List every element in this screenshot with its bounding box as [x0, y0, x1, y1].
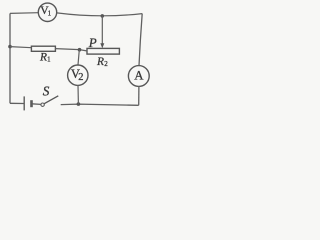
label R1	[39, 51, 51, 63]
svg-text:2: 2	[78, 72, 83, 83]
potentiometer slider arrow P	[100, 43, 104, 48]
wire bottom-right segment	[61, 104, 139, 105]
switch S	[41, 96, 58, 107]
wire battery to switch	[32, 103, 41, 106]
ammeter A	[128, 66, 149, 87]
rheostat R2	[87, 48, 119, 54]
wire middle-left segment	[10, 47, 32, 48]
junction at slider stem	[101, 14, 105, 18]
battery cell	[24, 96, 31, 110]
voltmeter V1	[38, 3, 56, 21]
wire A bottom lead	[138, 86, 140, 105]
voltmeter V2	[68, 50, 88, 104]
junction V2 bottom	[77, 102, 81, 106]
junction middle wire at left edge	[8, 45, 12, 49]
wire middle-right segment	[55, 49, 87, 51]
svg-text:R: R	[96, 56, 104, 68]
wire left edge	[9, 13, 11, 103]
svg-text:S: S	[43, 84, 50, 99]
svg-text:1: 1	[48, 9, 52, 17]
wire top-left segment	[10, 12, 38, 15]
junction V2 top	[78, 48, 82, 52]
wire bottom-left segment	[10, 102, 24, 104]
wire top-right segment	[57, 13, 142, 16]
svg-text:2: 2	[104, 60, 108, 68]
label R2	[96, 56, 108, 68]
svg-text:1: 1	[47, 57, 50, 64]
wire slider stem	[101, 16, 103, 44]
resistor R1	[31, 46, 55, 51]
svg-text:R: R	[39, 51, 47, 63]
wire right edge	[139, 14, 142, 66]
svg-text:A: A	[134, 69, 144, 83]
